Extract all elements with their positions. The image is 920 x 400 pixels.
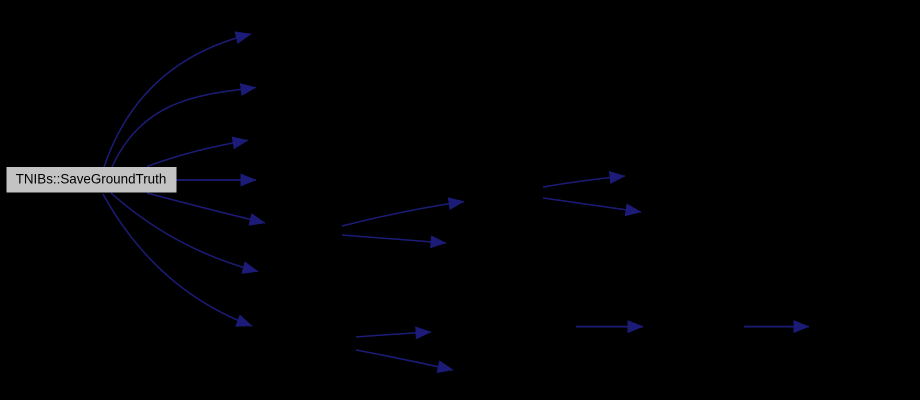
wire edge E13 [356,350,453,370]
node TNIBs::SaveGroundTruth [7,167,177,193]
wire edge E4 [176,179,256,181]
wire edge E8 [342,202,464,227]
wire edge E12 [356,332,431,337]
wire edge E3 [147,140,248,166]
svg-text:TNIBs::SaveGroundTruth: TNIBs::SaveGroundTruth [16,172,167,187]
wire edge E2 [112,88,256,168]
wire edge E9 [342,235,446,243]
wire edge E11 [543,198,641,212]
wire edge E10 [543,176,625,187]
wire edge E5 [147,193,265,223]
wire edge E15 [744,326,809,328]
wire edge E7 [103,194,252,326]
wire edge E14 [576,326,643,328]
wire edge E1 [104,34,251,167]
wire edge E6 [111,193,258,272]
